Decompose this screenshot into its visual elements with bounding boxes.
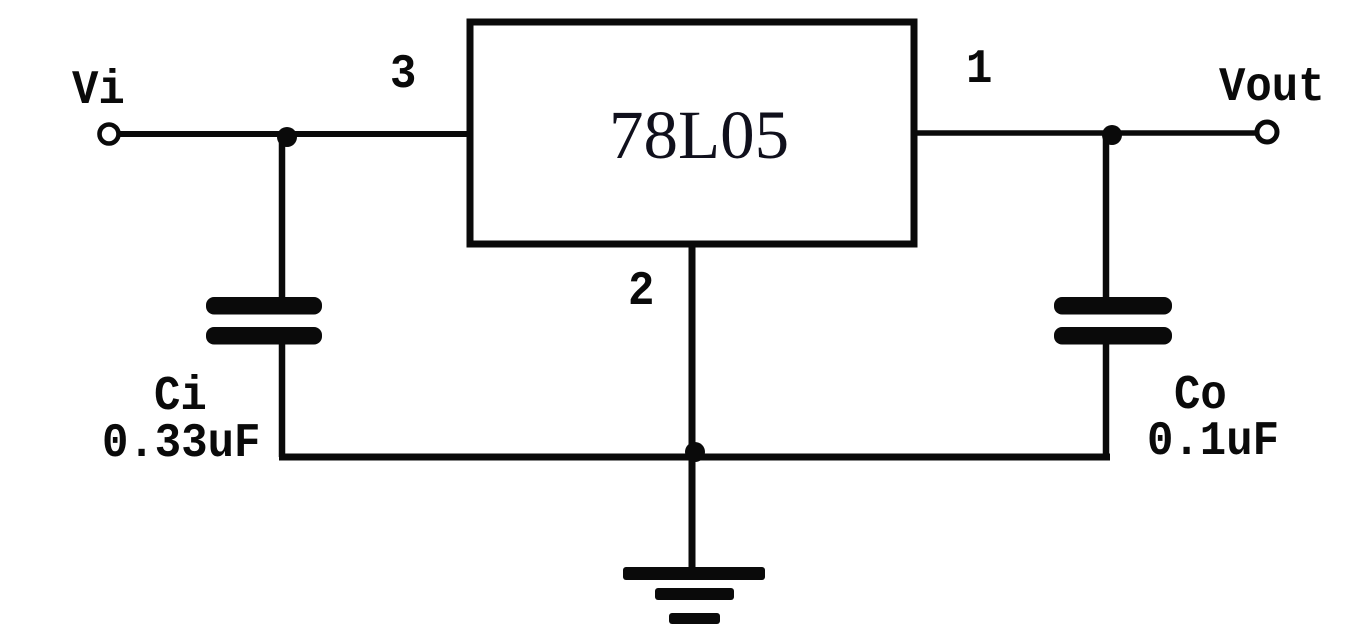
ground symbol bar 3 <box>669 613 720 624</box>
svg-text:Vout: Vout <box>1219 59 1325 114</box>
wire: pin 2 ground lead <box>689 244 696 570</box>
output terminal Vout <box>1257 122 1277 142</box>
ground rail wire <box>279 454 1110 461</box>
capacitor Ci bottom plate <box>206 327 322 345</box>
regulator U1 78L05 box <box>470 22 914 244</box>
svg-text:78L05: 78L05 <box>609 97 789 173</box>
svg-text:0.1uF: 0.1uF <box>1147 413 1279 468</box>
wire: input junction down to Ci <box>279 134 286 300</box>
svg-text:1: 1 <box>966 41 992 96</box>
capacitor Co bottom plate <box>1054 327 1172 345</box>
capacitor Co top plate <box>1054 297 1172 315</box>
wire: Vi terminal to pin 3 <box>120 131 468 137</box>
wire: Co to ground rail <box>1103 343 1110 457</box>
node: input junction <box>277 127 297 147</box>
wire: output junction down to Co <box>1103 133 1110 300</box>
ground symbol bar 1 <box>623 567 765 580</box>
capacitor Ci top plate <box>206 297 322 315</box>
input terminal Vi <box>100 125 119 144</box>
svg-text:0.33uF: 0.33uF <box>102 415 260 470</box>
svg-text:Vi: Vi <box>72 62 125 117</box>
wire: Ci to ground rail <box>279 343 286 457</box>
wire: pin 1 to Vout terminal <box>914 130 1256 136</box>
node: ground junction <box>685 442 705 462</box>
svg-text:3: 3 <box>390 46 416 101</box>
ground symbol bar 2 <box>655 588 734 600</box>
svg-text:2: 2 <box>628 263 654 318</box>
node: output junction <box>1102 125 1122 145</box>
